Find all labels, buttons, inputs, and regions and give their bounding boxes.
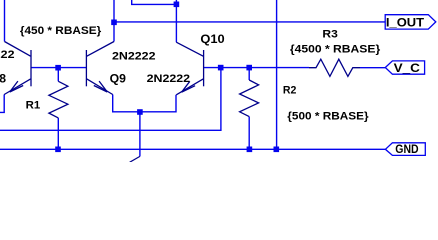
wire: left collector vertical to top edge bbox=[4, 0, 6, 42]
junction J7 bbox=[55, 147, 61, 153]
port GND bbox=[385, 142, 425, 156]
svg-text:R1: R1 bbox=[26, 99, 41, 111]
resistor R2 bbox=[240, 80, 259, 117]
wire: base net left (Q8 base - J3 - Q9 base) bbox=[31, 67, 86, 69]
svg-text:I_OUT: I_OUT bbox=[386, 15, 425, 29]
junction J5 bbox=[246, 65, 252, 71]
wire: left emitter down and off left edge bbox=[0, 95, 4, 113]
svg-text:2N2222: 2N2222 bbox=[0, 49, 15, 61]
junction J3 bbox=[55, 65, 61, 71]
svg-text:Q9: Q9 bbox=[110, 72, 127, 86]
svg-text:Q10: Q10 bbox=[200, 32, 225, 46]
svg-text:2N2222: 2N2222 bbox=[112, 50, 156, 62]
svg-text:{450 * RBASE}: {450 * RBASE} bbox=[20, 25, 102, 37]
junction J1 bbox=[111, 20, 117, 26]
wire: R1 top lead from J3 / bottom lead to GND bus bbox=[57, 68, 59, 150]
wire: upper bus y=130.3 with turn up to J4 bbox=[0, 68, 221, 131]
wire: Q10 base to junctions J4 J5 and to R3/V_C bbox=[204, 67, 386, 69]
svg-text:R3: R3 bbox=[322, 29, 337, 41]
junction J2 bbox=[174, 2, 180, 8]
wire: plain vertical from top edge to GND bus at x=276.6 bbox=[276, 0, 278, 149]
transistor Q10 (mirrored NPN, leads left) bbox=[176, 42, 203, 95]
svg-text:R2: R2 bbox=[283, 84, 297, 96]
svg-text:2N2222: 2N2222 bbox=[147, 73, 191, 85]
svg-text:V_C: V_C bbox=[394, 61, 421, 75]
resistor R1 bbox=[49, 81, 68, 118]
junction J8 bbox=[247, 147, 253, 153]
wire: J6 drop to bottom edge bbox=[139, 112, 141, 157]
transistor Q8 (cut at left, mirrored NPN) bbox=[4, 42, 31, 95]
port I_OUT bbox=[385, 15, 436, 30]
port V_C bbox=[385, 61, 424, 75]
resistor R3 (horizontal) bbox=[309, 59, 360, 76]
junction J6 bbox=[137, 109, 143, 115]
svg-text:GND: GND bbox=[395, 142, 419, 156]
transistor Q9 (NPN, leads right) bbox=[86, 42, 114, 95]
wire: top-left corner feed to Q10 collector bbox=[132, 0, 177, 42]
svg-text:{4500 * RBASE}: {4500 * RBASE} bbox=[290, 43, 381, 55]
svg-text:{500 * RBASE}: {500 * RBASE} bbox=[287, 111, 369, 123]
wire: collector stub of cut-off bottom transistor bbox=[130, 156, 140, 162]
wire: Q9 collector vertical + top net to I_OUT bbox=[114, 0, 385, 42]
junction J4 bbox=[218, 65, 224, 71]
wire: GND bus y=149.3 bbox=[0, 148, 385, 150]
svg-text:Q8: Q8 bbox=[0, 72, 6, 86]
wire: emitter link Q9-Q10 bbox=[113, 95, 176, 112]
junction J9 bbox=[274, 147, 280, 153]
wire: R2 top lead net from J5 down / R2 bottom to bus bbox=[248, 68, 250, 150]
